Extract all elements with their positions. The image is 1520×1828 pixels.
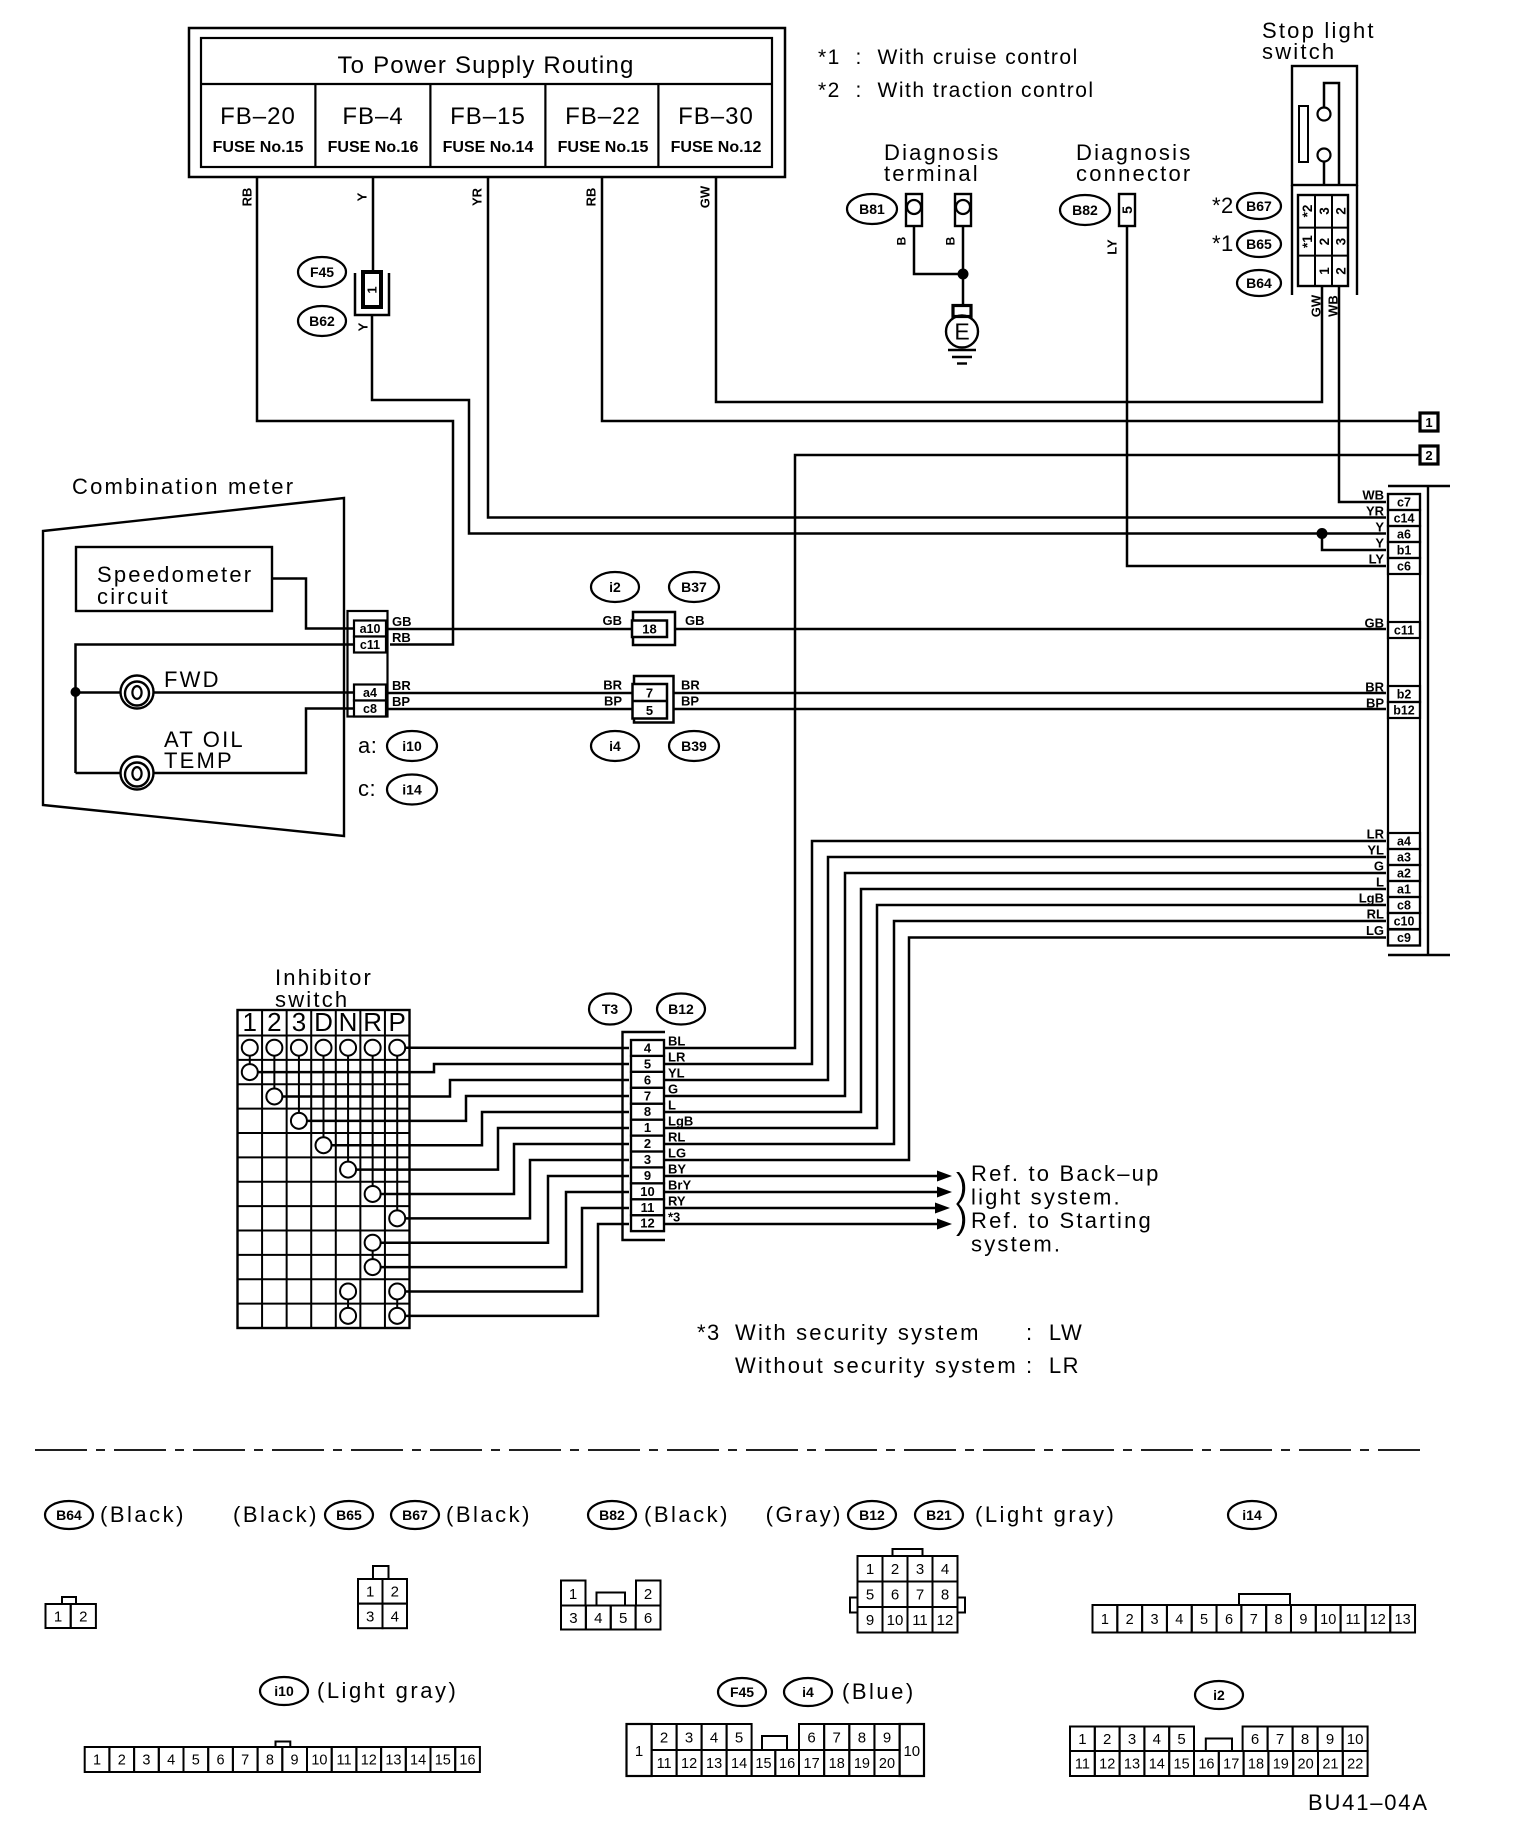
- T3/B12 pin 5: [631, 1056, 664, 1072]
- terminal node [2]: [1420, 446, 1438, 464]
- svg-text:*2 : With traction control: *2 : With traction control: [818, 79, 1095, 102]
- svg-text:Y: Y: [356, 322, 371, 331]
- T3/B12 pin 11: [631, 1199, 664, 1215]
- wire YL : pin 6 to TCU: [664, 857, 1386, 1080]
- inhibitor switch label: [275, 965, 373, 1012]
- svg-text:(Black): (Black): [446, 1502, 532, 1527]
- svg-text:(Blue): (Blue): [842, 1679, 916, 1704]
- svg-text:T3: T3: [602, 1001, 619, 1017]
- svg-text:BP: BP: [1366, 696, 1384, 711]
- TCU pin c10: [1388, 913, 1420, 929]
- svg-text:b2: b2: [1397, 688, 1412, 702]
- svg-text:(Black): (Black): [100, 1502, 186, 1527]
- connector key c: i14: [358, 775, 437, 805]
- legend connector B64 (Black): [45, 1501, 186, 1628]
- svg-text:G: G: [1374, 859, 1384, 874]
- svg-text:9: 9: [644, 1168, 651, 1183]
- svg-text:Ref. to Starting: Ref. to Starting: [971, 1208, 1153, 1233]
- svg-text:5: 5: [646, 703, 653, 718]
- svg-text:2: 2: [1103, 1731, 1111, 1748]
- svg-text:YR: YR: [1366, 504, 1385, 519]
- svg-text:L: L: [668, 1098, 676, 1113]
- svg-text:11: 11: [1075, 1757, 1090, 1773]
- TCU wire labels: [1359, 488, 1385, 939]
- svg-text:FWD: FWD: [164, 667, 221, 692]
- svg-text:: LR: : LR: [1026, 1353, 1080, 1378]
- svg-text:1: 1: [1425, 415, 1432, 430]
- svg-text:22: 22: [1347, 1757, 1363, 1773]
- svg-text:RB: RB: [584, 188, 599, 207]
- svg-text:3: 3: [916, 1561, 924, 1578]
- svg-text:c11: c11: [1394, 624, 1414, 638]
- svg-text:7: 7: [241, 1753, 249, 1769]
- svg-text:RB: RB: [240, 188, 255, 207]
- svg-text:2: 2: [660, 1729, 668, 1746]
- svg-text:RL: RL: [1367, 907, 1384, 922]
- svg-text:2: 2: [644, 1136, 651, 1151]
- T3/B12 pin 12: [631, 1215, 664, 1231]
- wire G : pin 7 to TCU: [664, 873, 1386, 1096]
- svg-text:WB: WB: [1362, 488, 1384, 503]
- svg-text:F45: F45: [730, 1684, 754, 1700]
- svg-text:B21: B21: [926, 1507, 952, 1523]
- svg-text:17: 17: [1223, 1757, 1239, 1773]
- TCU pin b2: [1388, 686, 1420, 702]
- svg-text:switch: switch: [1262, 39, 1336, 64]
- svg-text:15: 15: [1174, 1757, 1190, 1773]
- fuse cell FB-30 / FUSE No.12: [658, 84, 761, 167]
- svg-text:6: 6: [644, 1610, 652, 1627]
- svg-text:5: 5: [1119, 206, 1135, 214]
- ground E symbol: [946, 306, 978, 364]
- svg-text:*2: *2: [1212, 193, 1234, 218]
- svg-text:3: 3: [1333, 237, 1348, 245]
- svg-text:11: 11: [1345, 1612, 1360, 1628]
- svg-text:c10: c10: [1394, 915, 1415, 929]
- svg-text:: LW: : LW: [1026, 1320, 1083, 1345]
- svg-text:With security system: With security system: [735, 1320, 981, 1345]
- speedometer circuit block: [76, 547, 272, 611]
- svg-text:YR: YR: [470, 187, 485, 206]
- svg-text:1: 1: [1101, 1612, 1109, 1628]
- svg-text:FUSE No.12: FUSE No.12: [671, 139, 762, 156]
- wire RL : pin 2 to TCU: [664, 921, 1386, 1144]
- svg-text:(Light gray): (Light gray): [317, 1678, 458, 1703]
- svg-text:1: 1: [644, 1120, 651, 1135]
- svg-text:12: 12: [937, 1612, 954, 1629]
- svg-text:BL: BL: [668, 1034, 685, 1049]
- stop light switch connector housing sides: [1291, 185, 1293, 295]
- ref to starting system: [956, 1199, 1153, 1257]
- svg-text:5: 5: [619, 1610, 627, 1627]
- svg-text:a1: a1: [1397, 883, 1411, 897]
- svg-text:c14: c14: [1394, 512, 1415, 526]
- svg-text:4: 4: [391, 1608, 399, 1625]
- svg-text:RL: RL: [668, 1130, 685, 1145]
- svg-text:YL: YL: [668, 1066, 685, 1081]
- svg-text:4: 4: [644, 1041, 652, 1056]
- svg-text:7: 7: [1250, 1612, 1258, 1628]
- svg-text:16: 16: [1198, 1757, 1214, 1773]
- svg-text:12: 12: [1099, 1757, 1115, 1773]
- svg-text:2: 2: [1333, 207, 1348, 215]
- svg-text:LR: LR: [1367, 827, 1385, 842]
- svg-text:FUSE No.15: FUSE No.15: [558, 139, 649, 156]
- wire YR : FB-15 to c14: [470, 177, 1386, 518]
- svg-text:*1: *1: [1212, 231, 1234, 256]
- svg-text:(Gray): (Gray): [766, 1502, 843, 1527]
- svg-text:FB–15: FB–15: [450, 103, 526, 130]
- TCU connector shell: [1388, 486, 1450, 955]
- svg-text:2: 2: [644, 1586, 652, 1603]
- svg-text:14: 14: [410, 1753, 426, 1769]
- diagnosis connector label: [1076, 140, 1192, 186]
- svg-text:6: 6: [1225, 1612, 1233, 1628]
- wire LG : pin 3 to TCU: [664, 938, 1386, 1161]
- legend connectors B12 (Gray) / B21 (Light gray): [766, 1501, 1117, 1633]
- lamp AT OIL TEMP: [121, 727, 245, 790]
- svg-text:BY: BY: [668, 1162, 686, 1177]
- svg-text:12: 12: [1370, 1612, 1386, 1628]
- svg-text:BP: BP: [681, 694, 699, 709]
- svg-text:7: 7: [833, 1729, 841, 1746]
- svg-text:18: 18: [1248, 1757, 1264, 1773]
- junction dot of B wires: [958, 269, 969, 280]
- combination meter outline: [43, 474, 344, 836]
- svg-text:5: 5: [735, 1729, 743, 1746]
- svg-text:B: B: [894, 236, 908, 245]
- TCU pin a6: [1388, 526, 1420, 542]
- wire RB : FB-20 to combination meter c11 (via vertical x453): [240, 177, 453, 645]
- svg-text:YL: YL: [1367, 843, 1384, 858]
- svg-text:1: 1: [866, 1561, 874, 1578]
- svg-text:LgB: LgB: [1359, 891, 1384, 906]
- wire BP : c8 to b12 via connector pin 5: [386, 708, 1386, 711]
- svg-text:10: 10: [1347, 1731, 1364, 1748]
- svg-text:5: 5: [866, 1587, 874, 1604]
- svg-text:10: 10: [887, 1612, 904, 1629]
- svg-text:*2: *2: [1300, 205, 1315, 218]
- svg-text:11: 11: [657, 1756, 672, 1772]
- svg-text:FUSE No.15: FUSE No.15: [213, 139, 304, 156]
- svg-text:GB: GB: [603, 613, 623, 628]
- svg-text:1: 1: [1078, 1731, 1086, 1748]
- TCU pin a4: [1388, 833, 1420, 849]
- svg-text:11: 11: [641, 1200, 655, 1215]
- svg-text:1: 1: [93, 1753, 101, 1769]
- svg-text:21: 21: [1322, 1757, 1338, 1773]
- svg-text:P: P: [389, 1007, 406, 1037]
- svg-text:i14: i14: [402, 782, 422, 798]
- svg-text:9: 9: [291, 1753, 299, 1769]
- svg-text:FUSE No.14: FUSE No.14: [443, 139, 534, 156]
- svg-text:8: 8: [941, 1587, 949, 1604]
- diagnosis terminal label: [884, 140, 1000, 186]
- svg-text:GW: GW: [698, 185, 713, 208]
- svg-text:LY: LY: [1105, 239, 1120, 255]
- svg-text:i10: i10: [274, 1683, 294, 1699]
- svg-text:FB–30: FB–30: [678, 103, 754, 130]
- wire BR : a4 to b2 via connector pin 7: [386, 692, 1386, 695]
- svg-text:B67: B67: [402, 1507, 428, 1523]
- svg-text:To Power Supply Routing: To Power Supply Routing: [337, 52, 634, 79]
- svg-text:6: 6: [217, 1753, 225, 1769]
- svg-text:(Black): (Black): [233, 1502, 319, 1527]
- TCU pin c14: [1388, 510, 1420, 526]
- svg-text:system.: system.: [971, 1232, 1062, 1257]
- svg-text:a:: a:: [358, 733, 377, 758]
- svg-text:a2: a2: [1397, 867, 1411, 881]
- wire RB : FB-22 to terminal [1]: [584, 177, 1419, 421]
- svg-text:1: 1: [1317, 267, 1332, 275]
- svg-text:B37: B37: [681, 579, 707, 595]
- wire L : pin 8 to TCU: [664, 889, 1386, 1112]
- wires inhibitor switch to connector T3/B12: [258, 1048, 629, 1316]
- svg-text:TEMP: TEMP: [164, 748, 234, 773]
- svg-text:B64: B64: [1246, 275, 1272, 291]
- legend connector i10 (Light gray): [85, 1677, 480, 1772]
- svg-text:4: 4: [1153, 1731, 1161, 1748]
- connector T3: [589, 994, 631, 1025]
- svg-text:c6: c6: [1397, 560, 1411, 574]
- svg-text:GB: GB: [1365, 616, 1385, 631]
- legend connectors F45 / i4 (Blue): [627, 1678, 925, 1776]
- svg-text:Y: Y: [1375, 520, 1384, 535]
- svg-text:20: 20: [879, 1756, 895, 1772]
- wire Y : FB-4 down to fuse F45: [355, 177, 373, 273]
- svg-text:3: 3: [142, 1753, 150, 1769]
- svg-text:2: 2: [891, 1561, 899, 1578]
- svg-text:a4: a4: [363, 686, 377, 700]
- fuse cell FB-20 / FUSE No.15: [213, 103, 304, 156]
- svg-text:8: 8: [858, 1729, 866, 1746]
- svg-text:5: 5: [1177, 1731, 1185, 1748]
- svg-text:R: R: [363, 1007, 382, 1037]
- svg-text:12: 12: [361, 1753, 377, 1769]
- wire BY : pin 9 to back-up light system: [664, 1171, 952, 1182]
- inhibitor switch contact grid: [238, 1007, 410, 1328]
- svg-text:a3: a3: [1397, 851, 1411, 865]
- svg-text:13: 13: [385, 1753, 401, 1769]
- svg-text:B82: B82: [599, 1507, 625, 1523]
- svg-text:B64: B64: [56, 1507, 82, 1523]
- wire LgB : pin 1 to TCU: [664, 905, 1386, 1128]
- svg-text:1: 1: [54, 1608, 62, 1625]
- ref to back-up light system: [956, 1161, 1161, 1210]
- svg-text:FB–22: FB–22: [565, 103, 641, 130]
- svg-text:BP: BP: [604, 694, 622, 709]
- svg-text:B82: B82: [1072, 202, 1098, 218]
- TCU pin a2: [1388, 865, 1420, 881]
- svg-text:3: 3: [1128, 1731, 1136, 1748]
- svg-text:10: 10: [640, 1184, 654, 1199]
- svg-text:3: 3: [1317, 207, 1332, 215]
- svg-text:BR: BR: [1365, 680, 1384, 695]
- svg-text:N: N: [339, 1007, 358, 1037]
- svg-text:19: 19: [854, 1756, 870, 1772]
- svg-text:3: 3: [644, 1152, 651, 1167]
- svg-text:4: 4: [1175, 1612, 1183, 1628]
- wire WB : switch pin 2 to c7: [1326, 287, 1386, 502]
- svg-text:2: 2: [1425, 448, 1432, 463]
- svg-text:LY: LY: [1369, 552, 1385, 567]
- svg-text:7: 7: [1276, 1731, 1284, 1748]
- svg-text:connector: connector: [1076, 161, 1192, 186]
- svg-text:18: 18: [829, 1756, 845, 1772]
- svg-text:*3: *3: [697, 1320, 721, 1345]
- svg-text:BR: BR: [392, 678, 411, 693]
- wire BrY : pin 10 to back-up light system: [664, 1187, 952, 1198]
- svg-text:1: 1: [365, 286, 380, 293]
- junction dot common: [71, 687, 81, 697]
- T3/B12 wire labels: [668, 1034, 693, 1225]
- legend connector B82 (Black): [561, 1501, 730, 1630]
- TCU pin a1: [1388, 881, 1420, 897]
- svg-text:8: 8: [644, 1104, 651, 1119]
- svg-text:3: 3: [569, 1610, 577, 1627]
- stop light switch label: [1262, 18, 1376, 64]
- wire GW : FB-30 to stop light switch pin 1: [698, 177, 1322, 402]
- svg-text:*3: *3: [668, 1210, 680, 1225]
- svg-text:c:: c:: [358, 776, 376, 801]
- inhibitor contacts: [242, 1040, 405, 1324]
- wire LR : pin 5 to TCU: [664, 841, 1386, 1064]
- wire *3 : pin 12 to starting system: [664, 1219, 952, 1230]
- svg-text:BP: BP: [392, 694, 410, 709]
- svg-text:i4: i4: [802, 1684, 814, 1700]
- TCU pin c9: [1388, 930, 1420, 946]
- connector B64: [1237, 270, 1281, 296]
- svg-text:5: 5: [1200, 1612, 1208, 1628]
- svg-text:5: 5: [644, 1056, 651, 1071]
- svg-text:FUSE No.16: FUSE No.16: [328, 139, 419, 156]
- connector key a: i10: [358, 731, 437, 761]
- wire BL : pin 4 to terminal [2]: [664, 455, 1419, 1048]
- wire Y : fuse B62 to ECU a6 (junction to b1): [372, 315, 1386, 534]
- note *3 security system wire colors: [697, 1320, 1083, 1378]
- svg-text:11: 11: [336, 1753, 351, 1769]
- svg-text:Ref. to Back–up: Ref. to Back–up: [971, 1161, 1161, 1186]
- stop light switch body: [1292, 66, 1357, 185]
- svg-text:*1: *1: [1300, 235, 1315, 248]
- svg-text:B12: B12: [859, 1507, 885, 1523]
- wire labels GB RB BR BP at meter: [392, 614, 412, 709]
- svg-text:WB: WB: [1326, 295, 1341, 317]
- TCU pin a3: [1388, 849, 1420, 865]
- wire speedometer to pin a10: [272, 579, 356, 629]
- legend connectors B65 B67 (Black): [233, 1501, 532, 1628]
- svg-text:i4: i4: [609, 738, 621, 754]
- svg-text:i2: i2: [609, 579, 621, 595]
- svg-text:19: 19: [1273, 1757, 1289, 1773]
- svg-text:LG: LG: [668, 1146, 686, 1161]
- svg-text:2: 2: [1317, 238, 1332, 246]
- svg-text:a6: a6: [1397, 528, 1411, 542]
- svg-text:4: 4: [167, 1753, 175, 1769]
- svg-text:16: 16: [779, 1756, 795, 1772]
- svg-text:5: 5: [192, 1753, 200, 1769]
- wire Y branch to b1: [1322, 534, 1386, 551]
- connector i4/B39 pins 7 and 5: [591, 676, 719, 761]
- svg-text:B65: B65: [336, 1507, 362, 1523]
- svg-text:8: 8: [266, 1753, 274, 1769]
- svg-text:9: 9: [883, 1729, 891, 1746]
- svg-text:c8: c8: [363, 702, 377, 716]
- TCU pin c6: [1388, 558, 1420, 574]
- wire GB : a10 to c11 of TCU via joint connector 18: [386, 628, 1386, 631]
- svg-text:4: 4: [710, 1729, 718, 1746]
- svg-text:RY: RY: [668, 1194, 686, 1209]
- svg-text:15: 15: [435, 1753, 451, 1769]
- svg-text:12: 12: [681, 1756, 697, 1772]
- svg-text:E: E: [954, 319, 969, 345]
- svg-text:b12: b12: [1393, 704, 1415, 718]
- svg-text:1: 1: [366, 1584, 374, 1601]
- svg-text:13: 13: [1124, 1757, 1140, 1773]
- svg-text:2: 2: [1333, 267, 1348, 275]
- svg-text:10: 10: [311, 1753, 327, 1769]
- wire to ground: [962, 274, 965, 305]
- svg-text:B12: B12: [668, 1001, 694, 1017]
- svg-text:1: 1: [243, 1007, 257, 1037]
- svg-text:BrY: BrY: [668, 1178, 691, 1193]
- svg-text:light system.: light system.: [971, 1185, 1122, 1210]
- T3/B12 pin 1: [631, 1120, 664, 1136]
- svg-text:2: 2: [267, 1007, 281, 1037]
- svg-text:B81: B81: [859, 201, 885, 217]
- svg-text:6: 6: [644, 1072, 651, 1087]
- svg-text:B62: B62: [309, 313, 335, 329]
- svg-text:8: 8: [1275, 1612, 1283, 1628]
- connector B81: [847, 194, 897, 224]
- svg-text:2: 2: [1126, 1612, 1134, 1628]
- T3/B12 pin 9: [631, 1167, 664, 1183]
- legend connector i2: [1070, 1681, 1368, 1776]
- T3/B12 pin 6: [631, 1072, 664, 1088]
- svg-text:B: B: [943, 236, 957, 245]
- svg-text:8: 8: [1301, 1731, 1309, 1748]
- svg-text:18: 18: [642, 622, 656, 637]
- svg-text:9: 9: [1299, 1612, 1307, 1628]
- svg-text:a4: a4: [1397, 835, 1411, 849]
- svg-text:6: 6: [807, 1729, 815, 1746]
- TCU pin c8: [1388, 897, 1420, 913]
- lamp FWD: [121, 667, 221, 709]
- svg-text:*1 : With cruise control: *1 : With cruise control: [818, 46, 1079, 69]
- inhibitor column wires: [250, 1056, 397, 1308]
- svg-text:7: 7: [916, 1587, 924, 1604]
- svg-text:GB: GB: [685, 613, 705, 628]
- svg-text:BU41–04A: BU41–04A: [1308, 1790, 1429, 1815]
- diagnosis terminal contact 2: [955, 194, 971, 226]
- svg-text:i14: i14: [1242, 1507, 1262, 1523]
- svg-text:1: 1: [569, 1586, 577, 1603]
- wire through AT OIL TEMP lamp to c8: [76, 709, 357, 774]
- svg-text:17: 17: [804, 1756, 820, 1772]
- svg-text:2: 2: [79, 1608, 87, 1625]
- wire LY : B82 pin5 to c6: [1105, 226, 1386, 566]
- svg-text:14: 14: [731, 1756, 747, 1772]
- connector B82: [1060, 195, 1110, 225]
- svg-text:D: D: [314, 1007, 333, 1037]
- TCU pin c11: [1388, 622, 1420, 638]
- svg-text:7: 7: [646, 686, 653, 701]
- TCU pin b12: [1388, 702, 1420, 718]
- svg-text:i2: i2: [1213, 1687, 1225, 1703]
- diagnosis terminal contact 1: [906, 194, 922, 226]
- separator dashed line: [35, 1449, 1420, 1451]
- svg-text:15: 15: [755, 1756, 771, 1772]
